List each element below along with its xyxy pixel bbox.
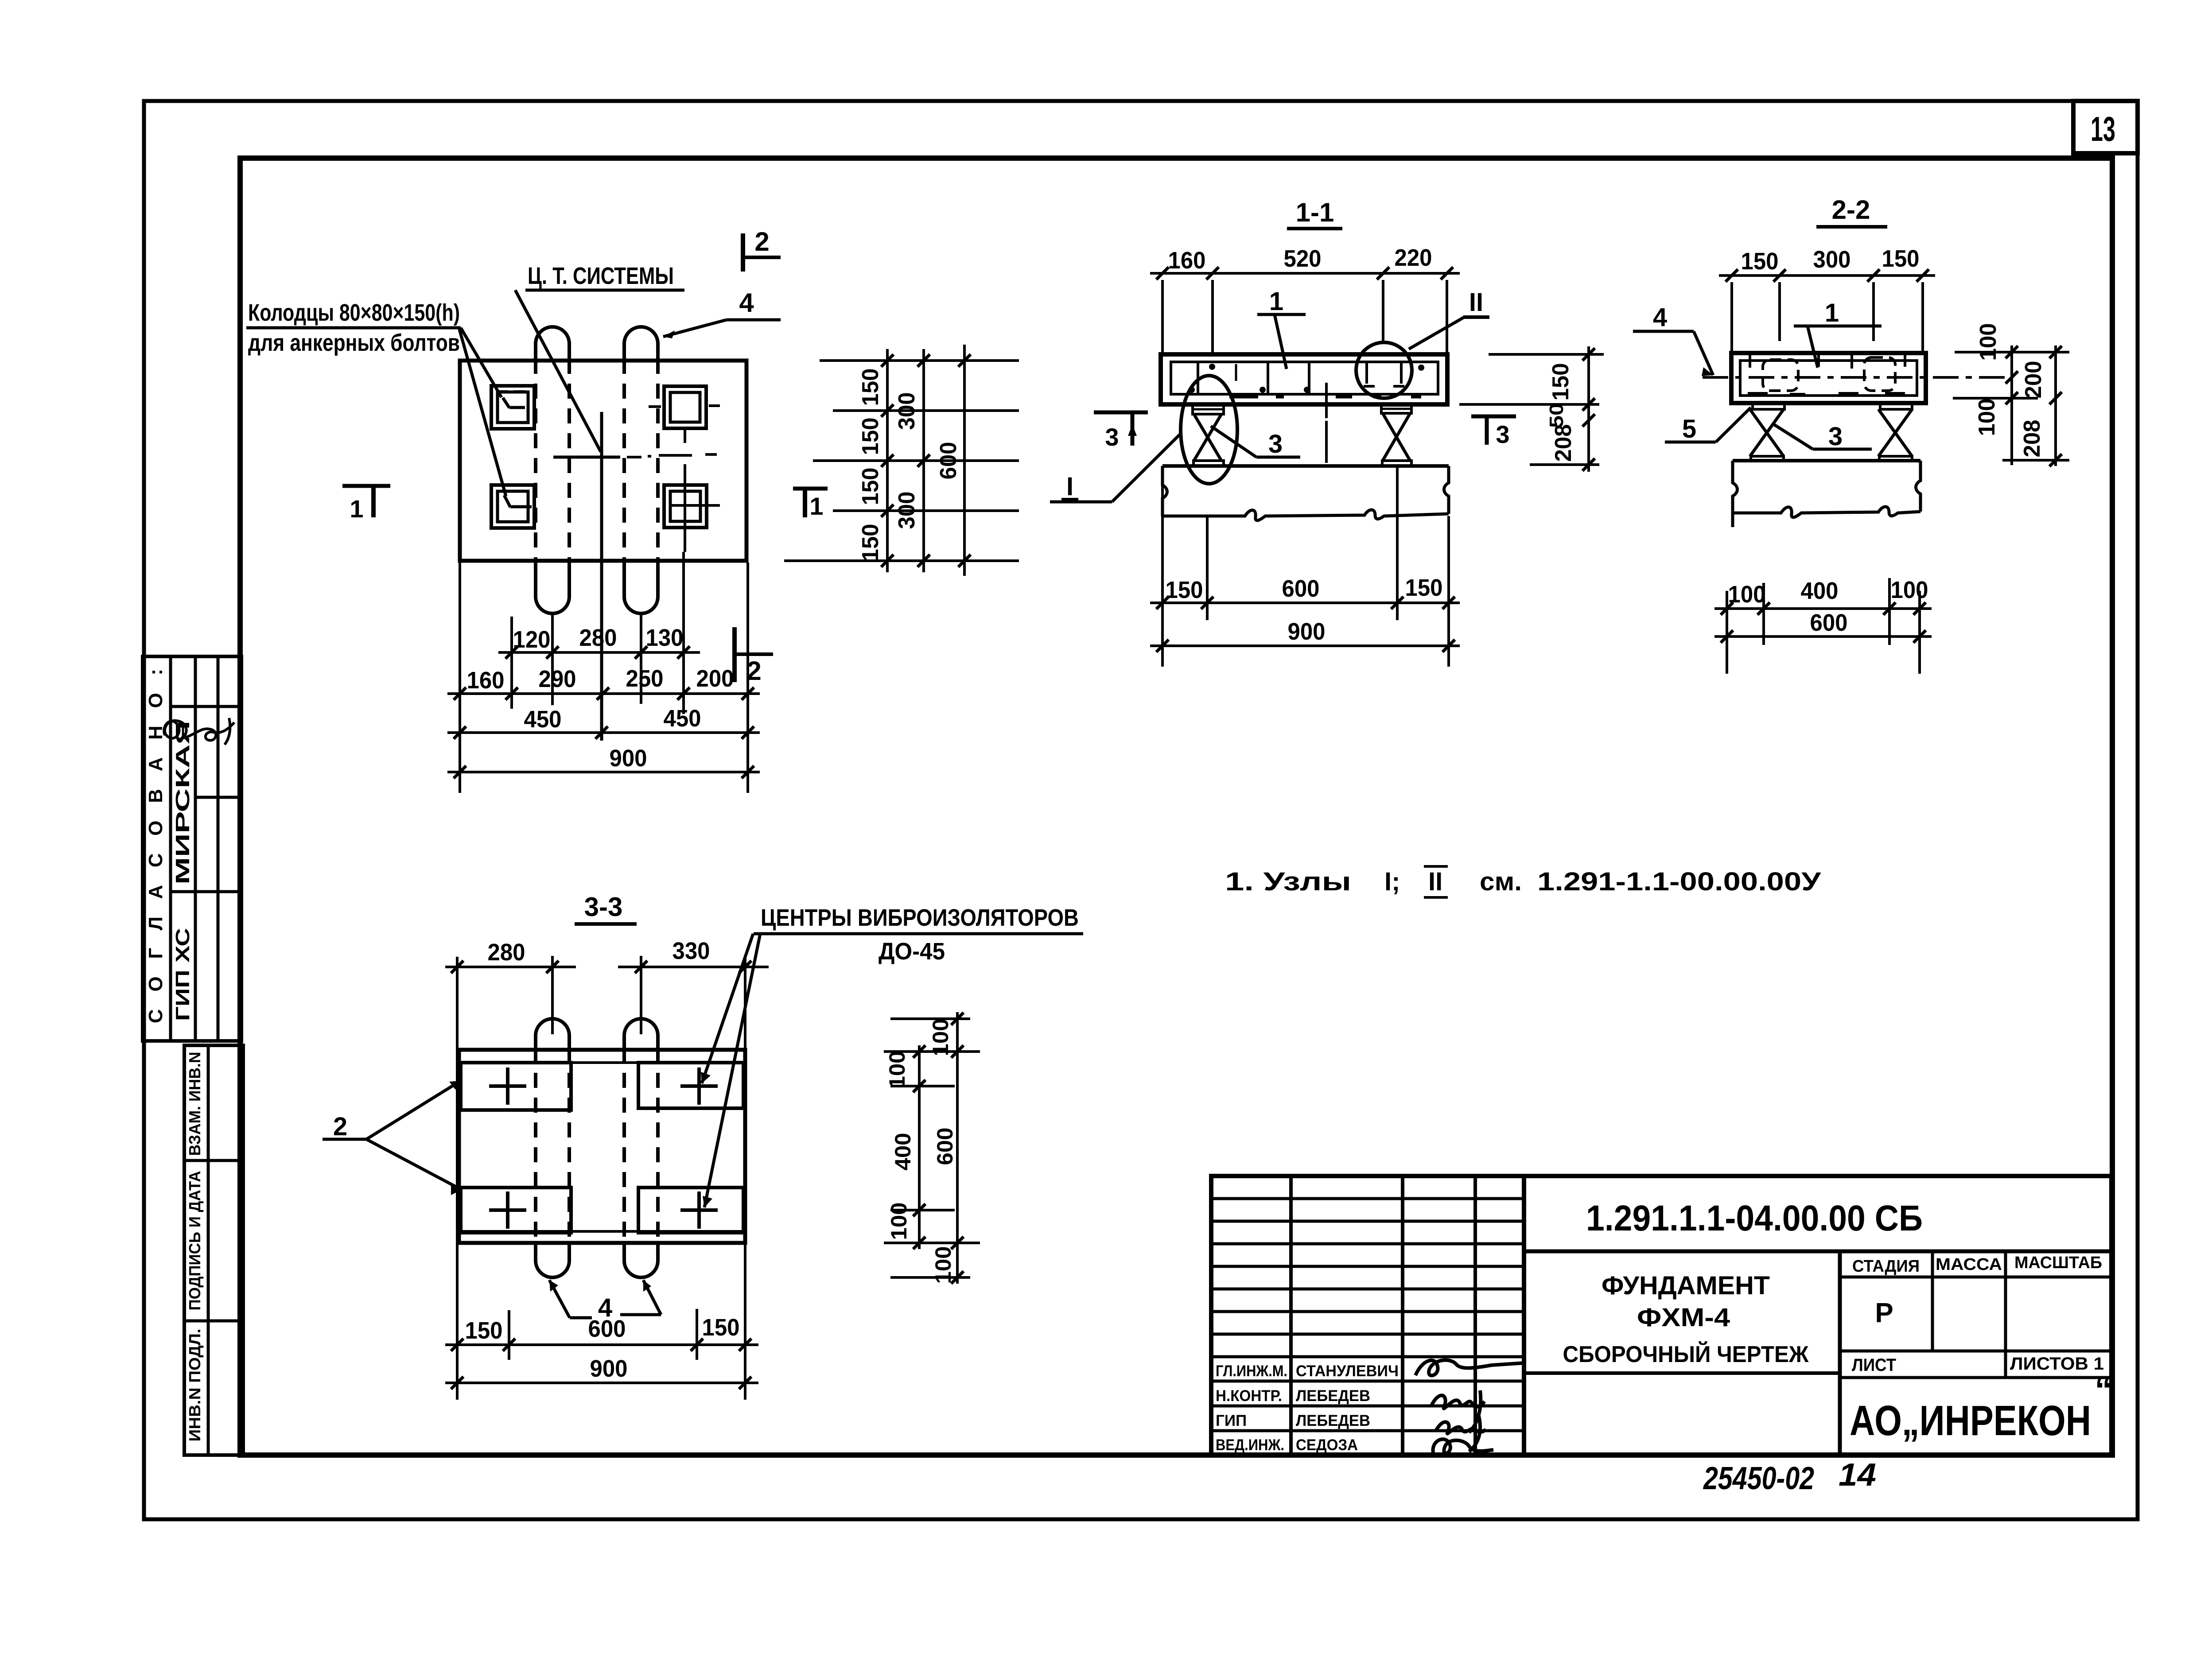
note 1. Узлы I; II см. 1.291-1.1-00.00.00У: [1225, 866, 1821, 897]
label ЦЕНТРЫ ВИБРОИЗОЛЯТОРОВ ДО-45: [701, 904, 1083, 1207]
header СТАДИЯ МАССА МАСШТАБ: [1840, 1251, 2111, 1351]
svg-text:АО„ИНРЕКОН: АО„ИНРЕКОН: [1850, 1397, 2091, 1444]
svg-text:1: 1: [1825, 299, 1839, 327]
ground slab band 1-1 with break lines: [1162, 466, 1449, 520]
svg-text:СТАНУЛЕВИЧ: СТАНУЛЕВИЧ: [1296, 1362, 1399, 1380]
label ИНВ.N ПОДЛ. (rotated): [186, 1329, 204, 1442]
svg-text:150: 150: [1166, 577, 1203, 603]
svg-text:I: I: [1066, 472, 1073, 501]
svg-text:1. Узлы: 1. Узлы: [1225, 867, 1351, 896]
svg-text:ВЗАМ. ИНВ.N: ВЗАМ. ИНВ.N: [186, 1052, 204, 1156]
top dimension chain 150 300 150 (2-2): [1719, 245, 1935, 353]
dimension chain 100 400 100 (2-2): [1714, 577, 1932, 615]
svg-text:ЛЕБЕДЕВ: ЛЕБЕДЕВ: [1296, 1387, 1370, 1405]
svg-text:1-1: 1-1: [1296, 198, 1334, 227]
label II with leader: [1409, 288, 1489, 349]
vibroisolator centre cross bottom-left: [489, 1192, 526, 1229]
svg-text:150: 150: [702, 1314, 740, 1341]
section mark 3 right: [1471, 416, 1516, 448]
dimension chain 450 450: [447, 705, 760, 739]
svg-text:1.291.1.1-04.00.00 СБ: 1.291.1.1-04.00.00 СБ: [1586, 1198, 1923, 1238]
svg-text:ЛИСТОВ 1: ЛИСТОВ 1: [2010, 1354, 2104, 1374]
anchor slot B (3-3, obround dashed): [624, 1019, 658, 1277]
label Колодцы 80х80х150(h) для анкерных болтов: [246, 299, 506, 496]
svg-text:600: 600: [1282, 575, 1320, 602]
svg-text:4: 4: [1653, 303, 1667, 332]
svg-text:520: 520: [1284, 245, 1322, 272]
signature table row ГЛ.ИНЖ.М СТАНУЛЕВИЧ: [1216, 1362, 1399, 1380]
svg-text:150: 150: [858, 468, 883, 505]
svg-text:450: 450: [524, 706, 562, 733]
svg-text:см.: см.: [1480, 867, 1522, 896]
svg-text:150: 150: [465, 1317, 503, 1344]
svg-text:1: 1: [809, 492, 823, 520]
label ГИП ХС (rotated): [172, 928, 194, 1021]
left vibroisolator support 1-1: [1193, 404, 1224, 466]
svg-text:МАСШТАБ: МАСШТАБ: [2014, 1254, 2102, 1272]
handwritten 25450-02 14: [1703, 1457, 1876, 1496]
svg-text:200: 200: [696, 665, 734, 692]
svg-text:300: 300: [894, 492, 920, 529]
svg-text:400: 400: [1801, 578, 1839, 604]
anchor well square bottom-left: [491, 485, 534, 528]
signature table row Н.КОНТР ЛЕБЕДЕВ: [1216, 1387, 1370, 1405]
svg-text:100: 100: [931, 1246, 956, 1284]
beam 1-1 internal stirrups and rebar: [1189, 363, 1424, 418]
document number 1.291.1.1-04.00.00 СБ: [1524, 1198, 2111, 1251]
svg-text:208: 208: [2019, 420, 2045, 458]
svg-text:100: 100: [886, 1203, 911, 1240]
svg-text:100: 100: [1891, 577, 1928, 603]
svg-text:280: 280: [579, 625, 617, 651]
svg-text:220: 220: [1395, 245, 1432, 271]
label 2 with leaders to plates: [323, 1081, 462, 1195]
beam 2-2 hidden slot openings: [1748, 354, 1905, 394]
plan bottom extension lines: [460, 552, 748, 793]
sheet number box 13: [2073, 101, 2138, 153]
slab bottom view outline (3-3): [459, 1050, 745, 1243]
vertical dimension chain 300 300: [894, 349, 930, 572]
svg-text:2: 2: [754, 227, 769, 256]
svg-text:Н.КОНТР.: Н.КОНТР.: [1216, 1387, 1282, 1405]
anchor plate top-right (part 2): [638, 1063, 743, 1108]
bottom extension lines (section 1-1): [1162, 466, 1449, 667]
right dimension chain 100 100 (2-2): [1974, 323, 2018, 466]
top dimension chain 160 520 220: [1150, 245, 1460, 354]
title block left signature table: [1211, 1176, 1524, 1455]
anchor plate bottom-left (part 2): [461, 1188, 571, 1233]
svg-text:для анкерных болтов: для анкерных болтов: [248, 330, 460, 356]
section mark 1 left: [342, 486, 390, 523]
ground slab band 2-2 with break lines: [1733, 461, 1920, 527]
svg-text:ИНВ.N ПОДЛ.: ИНВ.N ПОДЛ.: [186, 1329, 204, 1442]
label I with leader to detail ellipse: [1050, 433, 1182, 502]
svg-text:300: 300: [894, 392, 920, 430]
plan right extension lines: [784, 361, 1019, 561]
svg-text:3: 3: [1105, 423, 1119, 451]
label Ц. Т. СИСТЕМЫ with leader: [515, 263, 684, 452]
svg-text:3: 3: [1496, 420, 1509, 448]
dimension 900 (3-3): [445, 1355, 758, 1389]
plan slab outline: [460, 361, 746, 561]
svg-text:280: 280: [488, 939, 525, 966]
right vibroisolator support 1-1: [1381, 404, 1411, 466]
bottom extension lines (3-3): [509, 1243, 745, 1400]
label ВЗАМ. ИНВ.N (rotated): [186, 1052, 204, 1156]
svg-text:2: 2: [333, 1112, 347, 1141]
vibroisolator centre cross top-right: [680, 1067, 718, 1105]
svg-text:130: 130: [646, 625, 684, 651]
svg-text:160: 160: [1168, 247, 1206, 274]
svg-text:100: 100: [1975, 323, 2001, 361]
svg-text:ФХМ-4: ФХМ-4: [1637, 1303, 1730, 1332]
svg-text:СБОРОЧНЫЙ ЧЕРТЕЖ: СБОРОЧНЫЙ ЧЕРТЕЖ: [1563, 1341, 1809, 1367]
svg-text:I;: I;: [1384, 867, 1400, 896]
svg-text:200: 200: [2021, 361, 2046, 399]
beam 2-2 centre axis (dash-dot): [1703, 376, 2011, 379]
section mark 2 top: [743, 227, 781, 272]
svg-text:3: 3: [1268, 430, 1283, 458]
beam section 2-2 outline: [1731, 353, 1926, 403]
svg-text:ПОДПИСЬ И ДАТА: ПОДПИСЬ И ДАТА: [186, 1171, 204, 1311]
svg-text:100: 100: [928, 1019, 953, 1056]
row ЛИСТ / ЛИСТОВ 1: [1840, 1351, 2111, 1378]
svg-text:400: 400: [890, 1133, 915, 1171]
dimension chain 150 600 150 (3-3): [445, 1314, 758, 1351]
svg-text:2-2: 2-2: [1832, 195, 1870, 225]
title block outline: [1211, 1176, 2111, 1455]
svg-text:МИРСКАЯ: МИРСКАЯ: [172, 721, 194, 885]
svg-text:600: 600: [936, 442, 961, 480]
svg-text:МАССА: МАССА: [1936, 1255, 2002, 1274]
svg-text:600: 600: [1810, 609, 1848, 636]
bottom extension lines (2-2): [1727, 578, 1920, 674]
signature squiggle top-left: [164, 718, 234, 745]
label СОГЛАСОВАНО: (rotated): [145, 669, 167, 1023]
system centre horizontal axis: [553, 454, 717, 457]
svg-text:900: 900: [590, 1355, 628, 1382]
right dimension chain 150 50 208 (section 1-1): [1459, 346, 1604, 472]
svg-text:150: 150: [1741, 248, 1779, 275]
detail circle II on beam: [1356, 342, 1412, 398]
section mark 3 left: [1094, 412, 1148, 451]
anchor plate bottom-right (part 2): [638, 1188, 743, 1233]
section title 3-3: [575, 892, 637, 924]
svg-text:150: 150: [1405, 574, 1443, 601]
section title 2-2: [1816, 195, 1887, 227]
svg-text:Ц. Т. СИСТЕМЫ: Ц. Т. СИСТЕМЫ: [528, 263, 674, 289]
svg-text:СЕДОЗА: СЕДОЗА: [1296, 1436, 1358, 1454]
svg-text:600: 600: [933, 1128, 957, 1165]
svg-text:160: 160: [467, 667, 505, 694]
svg-text:Р: Р: [1875, 1298, 1893, 1328]
label ПОДПИСЬ И ДАТА (rotated): [186, 1171, 204, 1311]
svg-text:100: 100: [1728, 581, 1766, 608]
right dimension chain 100 600 100 (3-3): [928, 1012, 964, 1284]
dimension 280 (3-3): [445, 939, 576, 973]
svg-text:300: 300: [1813, 246, 1851, 273]
svg-text:4: 4: [739, 288, 754, 318]
anchor slot A (obround, dashed through slab): [536, 327, 569, 613]
beam section 1-1 outline: [1161, 354, 1447, 404]
svg-text:250: 250: [626, 665, 664, 692]
svg-text:150: 150: [858, 524, 883, 562]
svg-text:ЦЕНТРЫ ВИБРОИЗОЛЯТОРОВ: ЦЕНТРЫ ВИБРОИЗОЛЯТОРОВ: [761, 904, 1079, 931]
section mark 2 bottom: [735, 627, 773, 686]
vertical dimension chain 150x4: [858, 349, 894, 572]
label 4 with leaders to slot caps (3-3): [549, 1280, 661, 1322]
left approval table (СОГЛАСОВАНО block): [143, 656, 241, 1041]
svg-text:1: 1: [1269, 287, 1283, 316]
svg-text:ГЛ.ИНЖ.М.: ГЛ.ИНЖ.М.: [1216, 1362, 1287, 1380]
svg-text:600: 600: [588, 1316, 626, 1342]
svg-text:3: 3: [1828, 422, 1843, 451]
dimension chain 160 290 250 200: [447, 665, 760, 700]
right dimension chain 200 208 (2-2): [2019, 345, 2062, 466]
top extension lines (3-3): [457, 956, 745, 1400]
anchor well square bottom-right: [664, 464, 720, 552]
dimension chain 120 280 130: [498, 625, 700, 659]
signature table row ГИП ЛЕБЕДЕВ: [1216, 1412, 1370, 1429]
svg-text:1.291-1.1-00.00.00У: 1.291-1.1-00.00.00У: [1537, 867, 1821, 896]
svg-text:100: 100: [1974, 399, 2000, 436]
svg-text:Колодцы 80×80×150(h): Колодцы 80×80×150(h): [248, 299, 460, 326]
system centre vertical axis: [600, 412, 603, 741]
signature table row ВЕД.ИНЖ. СЕДОЗА: [1216, 1436, 1358, 1454]
vertical dimension 600 total: [936, 345, 971, 576]
left inventory table (ВЗАМ/ПОДПИСЬ/ИНВ block): [184, 1045, 243, 1455]
section title 1-1: [1287, 198, 1342, 229]
right extension lines (3-3 dims): [884, 1019, 980, 1277]
svg-text:150: 150: [858, 369, 883, 406]
title ФУНДАМЕНТ ФХМ-4 СБОРОЧНЫЙ ЧЕРТЕЖ: [1524, 1251, 1840, 1455]
anchor well square top-right: [649, 386, 720, 443]
label МИРСКАЯ (rotated): [172, 721, 194, 885]
svg-text:5: 5: [1682, 415, 1696, 443]
svg-text:ВЕД.ИНЖ.: ВЕД.ИНЖ.: [1216, 1436, 1284, 1454]
detail ellipse I around left support: [1181, 376, 1237, 484]
section mark 1 right: [793, 489, 828, 520]
anchor well square top-left: [491, 386, 534, 429]
svg-text:14: 14: [1839, 1457, 1876, 1493]
svg-text:1: 1: [350, 495, 363, 523]
signatures cursive scribbles: [1415, 1360, 1525, 1454]
svg-text:“: “: [2095, 1370, 2112, 1409]
anchor slot A (3-3, obround dashed): [536, 1019, 569, 1277]
svg-text:ДО-45: ДО-45: [879, 938, 945, 965]
svg-text:ЛЕБЕДЕВ: ЛЕБЕДЕВ: [1296, 1412, 1370, 1429]
svg-text:ГИП ХС: ГИП ХС: [172, 928, 194, 1021]
inner drawing frame: [240, 158, 2112, 1455]
right vibroisolator support 2-2: [1878, 403, 1912, 461]
svg-text:СТАДИЯ: СТАДИЯ: [1852, 1257, 1920, 1276]
right dimension chain 100 400 100 (3-3): [885, 1045, 925, 1249]
svg-text:150: 150: [858, 418, 883, 455]
title block main divider: [1522, 1176, 1526, 1455]
outer page border: [144, 101, 2138, 1519]
label 4 with leader to slot B: [663, 288, 781, 338]
svg-text:ЛИСТ: ЛИСТ: [1852, 1355, 1896, 1375]
svg-text:25450-02: 25450-02: [1703, 1461, 1814, 1496]
label 5 with leader (2-2): [1665, 408, 1751, 443]
company АО ИНРЕКОН: [1850, 1370, 2112, 1444]
svg-text:450: 450: [664, 705, 701, 732]
right extension lines (2-2): [1953, 352, 2069, 460]
anchor slot B (obround, dashed through slab): [624, 327, 658, 613]
svg-text:150: 150: [1882, 245, 1920, 272]
svg-text:120: 120: [513, 626, 551, 653]
vibroisolator centre cross top-left: [489, 1067, 526, 1105]
stage letter Р: [1840, 1298, 2111, 1351]
svg-text:900: 900: [610, 745, 647, 772]
label 3 with leader (section 1-1): [1211, 426, 1300, 458]
left vibroisolator support 2-2: [1750, 403, 1784, 461]
label 1 with leader (section 1-1): [1257, 287, 1306, 369]
dimension 900 (section 1-1): [1150, 618, 1460, 652]
svg-text:ГИП: ГИП: [1216, 1412, 1247, 1429]
label 1 with leader (2-2): [1794, 299, 1882, 368]
dimension chain 150 600 150 (section 1-1): [1150, 574, 1460, 609]
svg-text:3-3: 3-3: [584, 892, 623, 922]
vibroisolator centre cross bottom-right: [680, 1192, 718, 1229]
svg-text:150: 150: [1548, 363, 1574, 401]
svg-text:900: 900: [1288, 618, 1326, 645]
beam 1-1 centre axis between supports: [1325, 421, 1328, 463]
svg-text:13: 13: [2091, 109, 2115, 148]
svg-text:II: II: [1428, 867, 1442, 896]
label 4 with leader (2-2): [1633, 303, 1713, 376]
dimension 330 (3-3): [618, 938, 769, 973]
svg-text:II: II: [1469, 288, 1483, 317]
svg-text:100: 100: [885, 1051, 910, 1089]
svg-text:290: 290: [539, 666, 576, 692]
svg-text:208: 208: [1551, 424, 1576, 462]
svg-text:ФУНДАМЕНТ: ФУНДАМЕНТ: [1602, 1271, 1770, 1300]
anchor plate top-left (part 2): [461, 1063, 571, 1110]
label 3 with leader (2-2): [1773, 422, 1872, 451]
dimension 600 (2-2): [1714, 609, 1932, 643]
dimension 900 total: [447, 745, 760, 778]
svg-text:330: 330: [673, 938, 710, 964]
